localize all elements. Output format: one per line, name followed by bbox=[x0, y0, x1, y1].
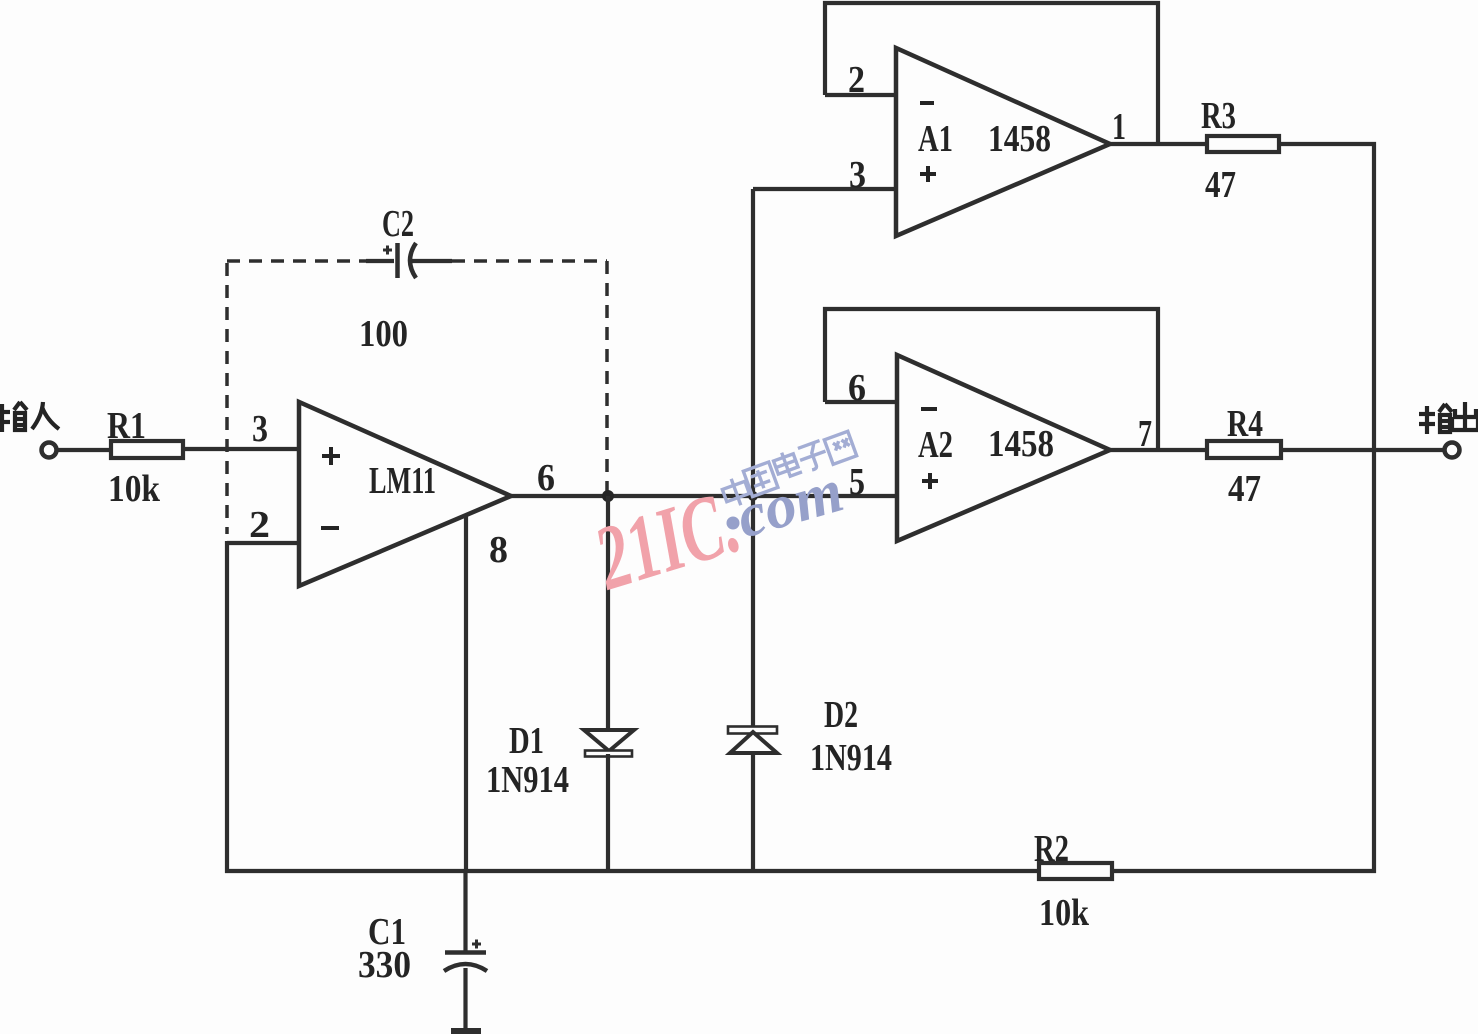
svg-text:6: 6 bbox=[537, 457, 555, 499]
wire node to D1 bbox=[606, 496, 610, 729]
svg-text:3: 3 bbox=[849, 154, 866, 196]
svg-text:1: 1 bbox=[1112, 106, 1126, 148]
svg-text:47: 47 bbox=[1205, 164, 1236, 206]
svg-text:47: 47 bbox=[1228, 468, 1261, 510]
watermark char zhong bbox=[720, 475, 752, 510]
resistor R1 bbox=[111, 441, 183, 458]
wire bottom rail right bbox=[1112, 869, 1376, 873]
svg-text:1458: 1458 bbox=[988, 118, 1051, 160]
op-amp U1 LM11 bbox=[299, 402, 511, 586]
wire R4 to output bbox=[1281, 448, 1444, 452]
svg-text:A2: A2 bbox=[918, 424, 953, 466]
wire pin2 bbox=[227, 541, 299, 545]
wire LM11 pin8 down bbox=[464, 514, 468, 871]
ground bbox=[451, 1028, 481, 1034]
capacitor C1 bbox=[444, 940, 487, 1030]
minus A1 bbox=[920, 101, 934, 105]
wire dashed box right bbox=[605, 261, 609, 492]
resistor R2 bbox=[1039, 863, 1112, 879]
wire dashed box top right bbox=[452, 259, 607, 263]
wire A2 output to R4 bbox=[1110, 448, 1207, 452]
plus A1 bbox=[920, 166, 936, 182]
wire LM11 output node bbox=[511, 494, 897, 498]
svg-text:C2: C2 bbox=[382, 203, 414, 245]
watermark char guo bbox=[743, 462, 778, 497]
node A dot bbox=[602, 490, 614, 502]
resistor R4 bbox=[1207, 441, 1281, 458]
wire A1 pin3 bbox=[753, 187, 896, 191]
svg-text:6: 6 bbox=[848, 367, 866, 409]
svg-text:10k: 10k bbox=[108, 468, 161, 510]
char shu (input) bbox=[0, 402, 27, 432]
diode D1 bbox=[584, 730, 634, 873]
wire A2 feedback box bbox=[825, 309, 1158, 450]
svg-text:3: 3 bbox=[252, 408, 268, 450]
wire rail to C1 bbox=[463, 871, 467, 952]
input terminal bbox=[42, 443, 57, 458]
svg-text:1N914: 1N914 bbox=[810, 737, 892, 779]
minus A2 bbox=[921, 407, 937, 411]
op-amp A2 bbox=[897, 355, 1110, 541]
plus LM11 bbox=[322, 447, 340, 465]
watermark .com dot bbox=[727, 517, 740, 530]
wire input to R1 bbox=[57, 448, 111, 452]
capacitor C2 bbox=[366, 243, 452, 278]
diode D2 bbox=[728, 727, 777, 874]
svg-text:2: 2 bbox=[249, 504, 270, 546]
wire R1 to LM11 pin3 bbox=[183, 447, 300, 451]
char chu (output) bbox=[1452, 402, 1478, 430]
svg-text:D1: D1 bbox=[509, 720, 544, 762]
plus A2 bbox=[922, 473, 938, 489]
wire A1 pin2 bbox=[825, 93, 896, 97]
wire A1 output to R3 bbox=[1110, 142, 1207, 146]
wire dashed box left bbox=[225, 263, 229, 534]
svg-text:2: 2 bbox=[848, 59, 865, 101]
svg-text:1458: 1458 bbox=[988, 423, 1054, 465]
char ru (input) bbox=[32, 402, 59, 429]
minus LM11 bbox=[321, 526, 339, 530]
wire A1 feedback box bbox=[825, 3, 1158, 144]
char shu (output) bbox=[1419, 404, 1452, 434]
watermark bbox=[583, 431, 857, 609]
wire node up to A1 pin3 bbox=[751, 189, 755, 496]
wire bottom rail left bbox=[225, 869, 1039, 873]
label output bbox=[1419, 402, 1478, 434]
svg-text:7: 7 bbox=[1138, 413, 1152, 455]
svg-text:10k: 10k bbox=[1039, 892, 1090, 934]
svg-text:A1: A1 bbox=[918, 118, 953, 160]
svg-text:5: 5 bbox=[849, 461, 865, 503]
wire node down to D2 bbox=[751, 496, 755, 729]
svg-text:D2: D2 bbox=[824, 694, 858, 736]
node B dot bbox=[748, 491, 758, 501]
output terminal bbox=[1445, 443, 1460, 458]
svg-text:R1: R1 bbox=[107, 405, 146, 447]
svg-text:330: 330 bbox=[358, 944, 411, 986]
svg-text:R3: R3 bbox=[1201, 95, 1236, 137]
watermark char zi bbox=[796, 440, 830, 473]
svg-text:LM11: LM11 bbox=[369, 460, 436, 502]
op-amp A1 bbox=[896, 48, 1110, 236]
svg-text:100: 100 bbox=[359, 313, 408, 355]
label input bbox=[0, 402, 59, 432]
svg-text:R2: R2 bbox=[1034, 828, 1069, 870]
wire dashed box top left bbox=[227, 259, 366, 263]
svg-text:R4: R4 bbox=[1227, 403, 1263, 445]
watermark char wang bbox=[824, 431, 856, 464]
svg-text:1N914: 1N914 bbox=[486, 759, 569, 801]
svg-text:8: 8 bbox=[489, 529, 508, 571]
resistor R3 bbox=[1207, 136, 1279, 152]
watermark char dian bbox=[772, 448, 802, 479]
watermark chinese chars bbox=[720, 431, 857, 509]
wire A2 pin6 bbox=[825, 400, 897, 404]
wire R3 to right rail bbox=[1279, 144, 1374, 873]
wire left vertical bbox=[225, 541, 229, 873]
